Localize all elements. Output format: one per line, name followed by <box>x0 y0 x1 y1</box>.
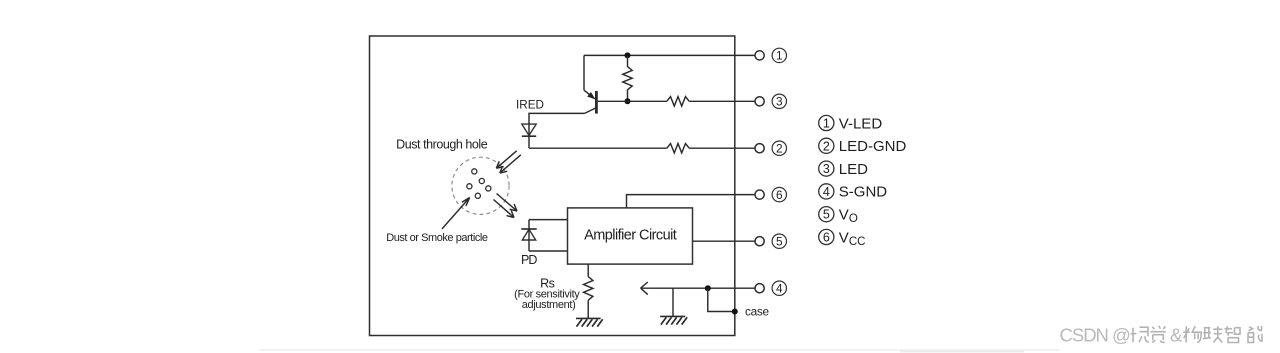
svg-text:1: 1 <box>823 117 830 131</box>
pin 3 number <box>772 94 786 108</box>
pin 2 terminal <box>755 144 764 153</box>
resistor R3 (to pin 2 LED-GND) <box>667 144 689 153</box>
pin 5 terminal <box>755 237 764 246</box>
svg-text:IRED: IRED <box>516 99 544 112</box>
svg-text:adjustment): adjustment) <box>522 299 576 311</box>
wire collector to IRED anode <box>529 113 585 136</box>
node junction top of R1 <box>625 52 631 58</box>
pin 2 number <box>772 141 786 156</box>
pin 4 number <box>772 281 786 296</box>
svg-text:3: 3 <box>776 95 783 109</box>
svg-text:Dust or Smoke particle: Dust or Smoke particle <box>386 232 488 244</box>
pin 3 terminal <box>755 97 764 106</box>
ground below Rs <box>576 318 603 326</box>
wire Vcc amplifier to pin 6 <box>627 195 756 208</box>
pin 6 terminal <box>755 190 764 199</box>
svg-text:6: 6 <box>823 231 830 245</box>
pin 1 number <box>772 48 786 63</box>
svg-text:3: 3 <box>823 162 830 176</box>
node case <box>732 309 738 315</box>
node branch to case <box>705 285 711 291</box>
resistor Rs (sensitivity adjustment) <box>584 277 593 301</box>
resistor R2 (to pin 3 LED) <box>667 97 689 106</box>
watermark glyph neng <box>1248 326 1263 343</box>
wire top rail (V-LED, pin 1) <box>584 54 755 56</box>
legend item 4 S-GND <box>819 184 888 201</box>
watermark glyph zhi <box>1225 326 1241 342</box>
light ray arrows IRED to hole <box>496 151 521 173</box>
watermark glyph wu <box>1183 326 1201 342</box>
svg-text:LED-GND: LED-GND <box>839 138 907 155</box>
svg-text:case: case <box>745 304 769 318</box>
ground near case <box>660 316 687 324</box>
pin 6 number <box>772 187 786 201</box>
watermark CSDN <box>1060 324 1184 345</box>
op-amp U1 amplifier circuit box <box>568 208 693 264</box>
legend item 3 LED <box>819 161 868 178</box>
svg-text:5: 5 <box>823 208 830 222</box>
faint page divider line <box>259 349 1059 350</box>
resistor R1 (bias, vertical) <box>623 55 632 101</box>
legend item 2 LED-GND <box>819 138 907 155</box>
wire amplifier to Rs <box>587 264 589 277</box>
wire Vo amplifier to pin 5 <box>693 240 756 242</box>
LED IRED <box>522 124 536 148</box>
svg-text:Amplifier Circuit: Amplifier Circuit <box>584 228 677 244</box>
svg-text:5: 5 <box>776 235 783 249</box>
wire PD anode to amplifier <box>529 250 568 252</box>
dust particles <box>467 169 491 199</box>
svg-text:4: 4 <box>776 282 783 296</box>
svg-text:Dust through hole: Dust through hole <box>396 137 488 151</box>
svg-text:VCC: VCC <box>839 229 866 248</box>
node junction base <box>625 98 631 104</box>
wire base to R2 <box>598 100 667 102</box>
legend item 1 V-LED <box>819 115 883 132</box>
pin 5 number <box>772 234 786 249</box>
light ray arrows hole to PD <box>494 194 518 218</box>
legend item 6 Vcc <box>819 229 866 248</box>
photodiode PD <box>521 220 536 251</box>
svg-text:S-GND: S-GND <box>839 184 888 201</box>
arrow dust particle pointer <box>442 198 470 229</box>
svg-text:1: 1 <box>776 49 783 63</box>
watermark glyph lian <box>1203 326 1223 342</box>
svg-text:4: 4 <box>823 185 830 199</box>
wire PD cathode to amplifier <box>529 219 568 221</box>
svg-text:VO: VO <box>839 207 858 226</box>
svg-text:PD: PD <box>521 253 537 267</box>
wire ground tap <box>672 288 674 316</box>
wire S-GND arrow line to pin 4 <box>641 282 756 295</box>
watermark glyph shi <box>1131 327 1150 342</box>
svg-text:6: 6 <box>776 188 783 202</box>
legend item 5 Vo <box>819 207 858 226</box>
wire IRED cathode to R3 <box>529 147 667 149</box>
transistor Q1 (PNP) <box>584 90 596 113</box>
svg-text:CSDN @: CSDN @ <box>1060 324 1131 345</box>
watermark glyph jue <box>1150 326 1166 343</box>
wire R3 to pin 2 <box>689 147 755 149</box>
dust through hole dashed circle <box>452 157 509 214</box>
case outline (sensor package) <box>370 36 735 336</box>
svg-text:V-LED: V-LED <box>839 115 883 132</box>
wire emitter feed <box>583 55 585 90</box>
svg-text:LED: LED <box>839 161 868 178</box>
pin 4 terminal <box>755 284 764 293</box>
svg-text:2: 2 <box>776 142 783 156</box>
wire Rs to ground <box>587 300 589 318</box>
svg-text:2: 2 <box>823 139 830 153</box>
svg-text:&: & <box>1170 324 1183 345</box>
pin 1 terminal <box>755 51 764 60</box>
wire case branch <box>708 288 735 311</box>
wire R2 to pin 3 <box>689 100 755 102</box>
